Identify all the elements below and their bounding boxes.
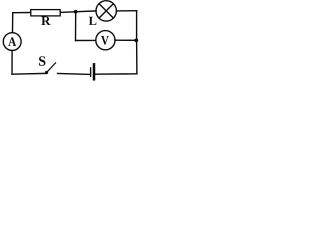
wire ammeter to bottom-left corner	[11, 51, 13, 74]
ammeter A1	[3, 33, 21, 51]
lamp L1	[96, 1, 116, 21]
label S	[39, 56, 45, 65]
wire voltmeter branch vertical	[75, 12, 77, 41]
wire battery to bottom-right corner	[96, 73, 137, 75]
label L	[89, 17, 97, 25]
wire switch to battery	[58, 73, 90, 76]
wire resistor to lamp	[60, 11, 96, 13]
wire right vertical (corner down to bottom-right)	[136, 11, 138, 74]
wire left vertical (top corner down to ammeter)	[12, 13, 14, 33]
wire top-left corner to resistor	[13, 12, 31, 14]
resistor R1	[31, 10, 60, 16]
junction node b (right)	[134, 39, 138, 43]
voltmeter V1	[96, 31, 115, 50]
wire voltmeter to right junction	[115, 39, 137, 41]
switch S1	[45, 63, 56, 74]
battery B1	[91, 64, 94, 79]
wire lamp to top-right corner	[116, 10, 136, 12]
wire bottom-left to switch	[12, 72, 46, 75]
wire branch to voltmeter	[76, 39, 96, 41]
junction node a (top)	[74, 10, 78, 14]
label R	[41, 16, 50, 25]
